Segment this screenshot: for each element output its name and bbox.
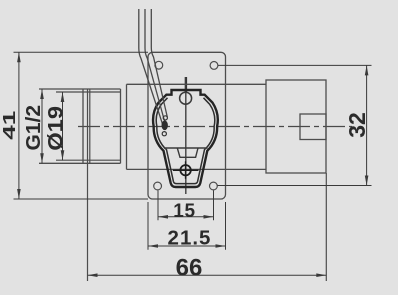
nut right edge vertical xyxy=(120,89,122,163)
screw cross vertical xyxy=(185,161,187,179)
wire 2 xyxy=(145,9,165,122)
port face vertical xyxy=(82,89,84,163)
hole top-right xyxy=(210,62,218,70)
dim 32 arrow up xyxy=(365,65,369,75)
port outer bottom edge (ext line) xyxy=(39,162,121,164)
connector tab xyxy=(300,114,326,140)
dim G1/2 line xyxy=(41,89,43,163)
body top edge xyxy=(127,83,267,85)
dim 21.5 arrow left xyxy=(148,244,158,248)
dim d19 arrow up xyxy=(61,92,65,102)
body left edge xyxy=(126,84,128,169)
block right ext line down to 66 dim xyxy=(325,173,327,281)
hole top-left xyxy=(155,61,163,69)
wire blob xyxy=(162,121,168,131)
svg-text:G1/2: G1/2 xyxy=(22,105,44,151)
svg-text:15: 15 xyxy=(173,201,196,222)
dim 15 ext right xyxy=(213,191,215,221)
dim 41 line xyxy=(18,52,20,199)
nut junction second vertical xyxy=(89,89,91,163)
interior horizontal line xyxy=(164,147,208,149)
dim 32 line xyxy=(366,65,368,185)
dim 32 ext bottom xyxy=(218,185,372,187)
dim d19 arrow down xyxy=(61,150,65,160)
bell cover outer outline xyxy=(153,90,218,187)
small top circle xyxy=(180,92,192,104)
port inner top line d19 xyxy=(56,91,121,93)
dim 41 extension top xyxy=(14,51,149,53)
nut junction vertical (extends down as 66 ext line) xyxy=(87,89,89,281)
horizontal centerline xyxy=(78,126,352,128)
dim G1/2 arrow up xyxy=(40,89,44,99)
dim 15 arrow left xyxy=(158,215,168,219)
dim 15 line xyxy=(158,216,214,218)
dim 21.5 line xyxy=(148,245,226,247)
hole bottom-right xyxy=(210,182,218,190)
dim 41 arrow up xyxy=(17,52,21,62)
dim 21.5 ext left xyxy=(147,202,149,250)
dim 21.5 ext right xyxy=(225,202,227,250)
dim G1/2 arrow down xyxy=(40,153,44,163)
svg-text:Ø19: Ø19 xyxy=(44,106,67,151)
connector block xyxy=(266,80,326,173)
dim 32 arrow down xyxy=(365,176,369,186)
vertical centerline of flange xyxy=(185,77,187,194)
port G1/2 outer top edge (ext line) xyxy=(39,88,121,90)
screw circle xyxy=(180,165,190,175)
bell cover inner outline xyxy=(156,98,214,184)
svg-text:21.5: 21.5 xyxy=(168,226,212,249)
interior small trapezoid xyxy=(177,148,198,157)
body bottom edge xyxy=(127,168,267,170)
wire 1 xyxy=(139,9,163,124)
svg-text:66: 66 xyxy=(176,254,203,281)
wire terminal lower xyxy=(162,132,166,136)
dim 66 arrow left xyxy=(88,273,98,277)
bold center mark above notch xyxy=(185,77,187,92)
dim 41 arrow down xyxy=(17,189,21,199)
dim 41 extension bottom xyxy=(14,198,149,200)
hole bottom-left xyxy=(154,182,162,190)
dim d19 line xyxy=(62,92,64,160)
svg-text:32: 32 xyxy=(344,112,370,138)
dim 15 arrow right xyxy=(204,215,214,219)
svg-text:41: 41 xyxy=(0,111,19,140)
dim 66 arrow right xyxy=(316,273,326,277)
wire 3 xyxy=(151,9,167,117)
port inner bottom line d19 xyxy=(56,159,121,161)
flange plate xyxy=(148,52,226,199)
dim 32 ext top xyxy=(218,64,372,66)
wire terminal upper xyxy=(163,116,167,120)
screw cross horizontal xyxy=(173,169,199,171)
dim 15 ext left xyxy=(157,191,159,221)
dim 21.5 arrow right xyxy=(216,244,226,248)
dim 66 line xyxy=(88,274,327,276)
